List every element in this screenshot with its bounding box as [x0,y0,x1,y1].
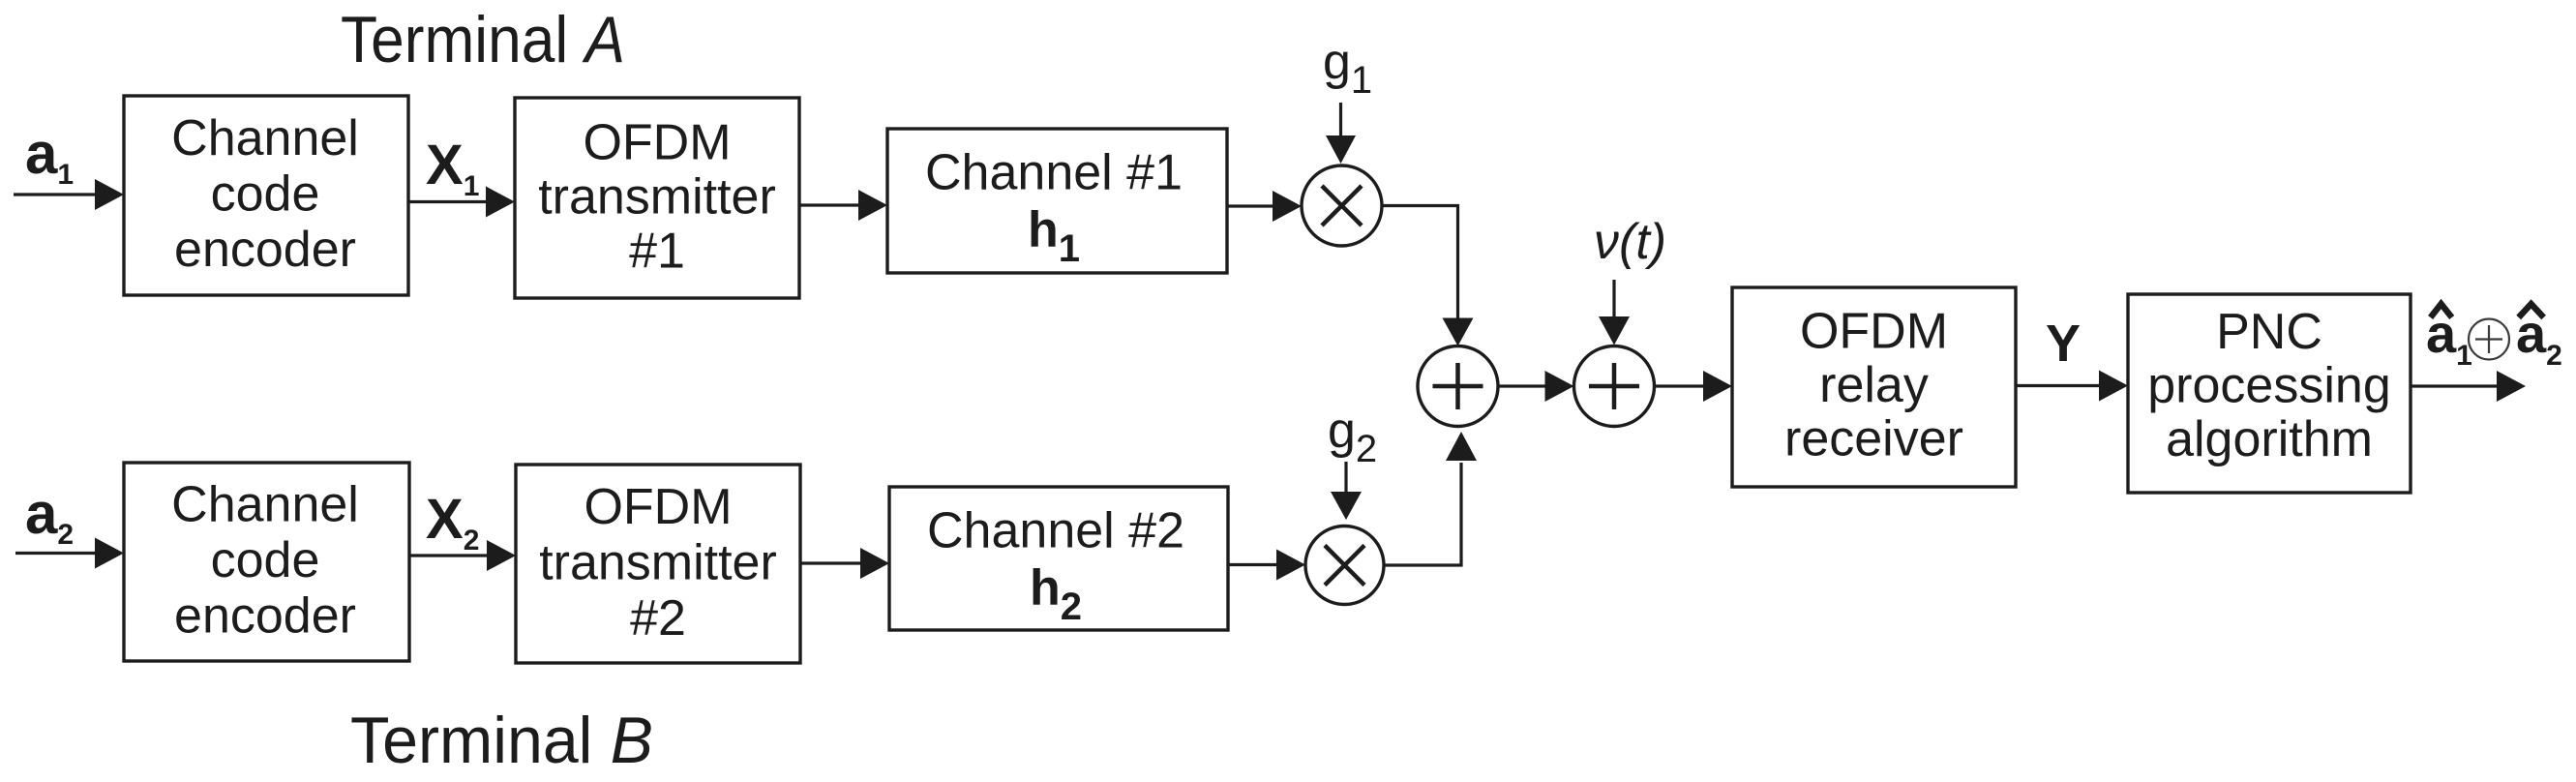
svg-text:relay: relay [1819,357,1929,413]
adder A1 [1418,346,1498,427]
svg-text:transmitter: transmitter [538,169,776,226]
svg-text:a2: a2 [25,481,74,551]
wire U7 to U8 [800,548,889,579]
block U8 Channel #2 h2 [889,487,1228,630]
wire U3 to multiplier M1 [1227,191,1302,222]
svg-text:code: code [211,532,320,588]
svg-text:receiver: receiver [1784,411,1963,467]
svg-text:algorithm: algorithm [2166,411,2373,467]
wire g1 down arrow [1326,103,1356,164]
svg-text:Channel #2: Channel #2 [927,503,1184,559]
wire M2 output up to adder A1 [1384,432,1477,565]
svg-text:g1: g1 [1323,34,1372,102]
wire a2 input arrow [15,538,124,569]
wire g2 down arrow [1331,462,1362,520]
block U2 OFDM transmitter #1 [515,98,799,298]
wire a1 input arrow [14,179,124,210]
block U3 Channel #1 h1 [887,129,1227,273]
wire output arrow [2411,371,2526,402]
wire A2 to U4 [1655,371,1733,402]
svg-text:OFDM: OFDM [583,115,731,171]
svg-text:Terminal B: Terminal B [350,704,653,777]
wire X2 arrow [409,540,516,571]
svg-text:h1: h1 [1028,202,1080,271]
block U7 OFDM transmitter #2 [516,465,800,663]
block U6 Channel code encoder (bottom) [124,463,409,661]
wire v(t) down arrow [1599,280,1630,346]
svg-text:#2: #2 [630,590,686,647]
svg-text:a1: a1 [25,121,74,191]
wire X1 arrow [408,187,515,218]
block U1 Channel code encoder (top) [124,96,408,295]
svg-text:Channel: Channel [171,110,359,166]
svg-text:processing: processing [2147,358,2390,414]
svg-text:g2: g2 [1328,403,1377,470]
svg-text:transmitter: transmitter [539,535,777,591]
svg-text:code: code [211,166,320,223]
node a1 xor a2 output label [2426,303,2562,372]
multiplier M1 [1302,165,1382,246]
wire M1 output to adder A1 [1382,206,1474,346]
svg-text:encoder: encoder [174,588,356,645]
multiplier M2 [1305,526,1384,605]
svg-text:Terminal A: Terminal A [341,3,625,76]
svg-text:ν(t): ν(t) [1594,214,1666,270]
svg-text:OFDM: OFDM [584,479,732,535]
svg-text:encoder: encoder [174,222,356,278]
svg-text:#1: #1 [629,224,685,280]
wire Y arrow U4 to U5 [2016,371,2128,402]
svg-text:Channel #1: Channel #1 [925,145,1183,201]
adder A2 [1574,346,1655,427]
wire A1 to adder A2 [1498,371,1574,402]
svg-text:OFDM: OFDM [1800,304,1948,360]
block U4 OFDM relay receiver [1732,287,2016,487]
svg-text:Y: Y [2046,315,2081,373]
svg-text:X2: X2 [426,488,479,556]
svg-text:PNC: PNC [2216,304,2322,360]
svg-text:Channel: Channel [171,477,359,533]
svg-text:X1: X1 [426,134,479,202]
wire U2 to U3 [799,190,887,221]
svg-text:h2: h2 [1030,560,1082,629]
wire U8 to multiplier M2 [1228,550,1305,581]
block U5 PNC processing algorithm [2128,294,2411,493]
